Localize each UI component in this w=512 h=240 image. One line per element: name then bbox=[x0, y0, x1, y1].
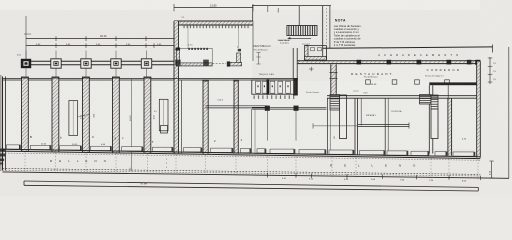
colonnade wall (double line) bbox=[21, 61, 178, 65]
south wall band (footing cells) bbox=[7, 145, 476, 157]
column (restaurant wall) x=388.8 bbox=[387, 60, 392, 65]
wall (hatched vertical) x=21.5 bbox=[21, 77, 29, 152]
right dimension (vertical, lower) bbox=[489, 161, 493, 178]
wall (hatched vertical) x=476.7 bbox=[477, 62, 481, 158]
wall (hatched vertical) x=174.0 bbox=[174, 80, 179, 154]
note text block (NOTA) bbox=[334, 19, 362, 47]
dim ticks on left wall bbox=[330, 73, 338, 79]
column (interior dashed) x=368 bbox=[366, 80, 371, 84]
column (interior dashed) x=417 bbox=[415, 80, 420, 84]
sidewalk edge line (top) bbox=[252, 5, 331, 7]
stair slot room 1 bbox=[69, 101, 90, 136]
column (restaurant wall) x=448.8 bbox=[447, 60, 452, 65]
dimension line (vestibule 12.80) bbox=[174, 4, 253, 12]
wall (hatched vertical) x=234.0 bbox=[234, 80, 239, 154]
wall continuations through strip (dashed) bbox=[25, 152, 478, 179]
interior wall line bbox=[447, 85, 449, 154]
column P5 bbox=[141, 51, 151, 78]
rooms bottom wall (sloped) bbox=[3, 149, 481, 160]
toilet room bbox=[279, 39, 327, 60]
column (interior dashed) x=394.5 bbox=[392, 80, 397, 84]
overall dimension bracket 97.84 bbox=[24, 181, 478, 191]
dimension line (bays 3.00) bbox=[17, 43, 174, 56]
corredor bottom thick wall bbox=[429, 82, 480, 85]
column (restaurant wall) x=418.8 bbox=[417, 60, 422, 65]
basement stair 2 (rungs) bbox=[420, 95, 439, 110]
wall (hatched vertical) x=82.5 bbox=[82, 77, 90, 153]
wall below restaurant bbox=[327, 96, 477, 99]
wall (hatched vertical) x=112.5 bbox=[112, 77, 120, 153]
vestibule interior pier cluster 2 bbox=[227, 46, 242, 66]
column near corner bbox=[467, 60, 472, 65]
dimension line (overall 32.10) bbox=[24, 16, 174, 59]
espera room wall bbox=[306, 91, 409, 129]
column (interior dashed) x=447 bbox=[445, 80, 450, 84]
interior dimension line 16.10 bbox=[130, 79, 132, 172]
label RESTAURANT bbox=[351, 72, 392, 86]
column P2 bbox=[51, 51, 61, 78]
hatch dashes under top wall bbox=[184, 26, 249, 29]
relleno strip bottom (dashed) bbox=[3, 168, 481, 176]
interior light patches bbox=[6, 81, 476, 149]
stair slot room 2 bbox=[154, 99, 168, 133]
wall (hatched vertical) x=447.9 bbox=[448, 98, 452, 155]
wall (hatched vertical) x=330.8 bbox=[331, 64, 336, 98]
wall (hatched vertical) x=203.0 bbox=[203, 80, 209, 154]
vestibule centerlines bbox=[187, 25, 189, 48]
right border line bbox=[508, 47, 510, 178]
taquilla booths bbox=[252, 79, 297, 95]
main front wall (double line) bbox=[3, 78, 299, 80]
taquilla basement wall bbox=[252, 106, 327, 154]
vestibule interior pier cluster 1 bbox=[175, 44, 212, 66]
bottom dimension ticks bbox=[267, 173, 480, 182]
wall (hatched vertical) x=144.0 bbox=[144, 77, 152, 154]
basement stair 2 well bbox=[431, 109, 438, 139]
hatch dashes below booths bbox=[254, 95, 295, 99]
wall left of stair 1 bbox=[328, 98, 331, 154]
restaurant front wall bbox=[297, 61, 480, 64]
label CORREDOR bbox=[425, 68, 460, 77]
basement stair 1 (rungs) bbox=[330, 95, 340, 111]
column (restaurant wall) x=358.8 bbox=[357, 60, 362, 65]
wall mid-left basement bbox=[206, 100, 268, 108]
column P1 bbox=[21, 51, 31, 78]
room labels bbox=[30, 135, 467, 169]
basement stair 1 well bbox=[340, 95, 347, 139]
label VESTIBULO bbox=[253, 44, 271, 51]
entrance stairs bbox=[287, 26, 317, 36]
wall (hatched vertical) x=174 bbox=[174, 21, 179, 80]
wall (vestibule/taquilla divider) bbox=[293, 48, 298, 96]
sidewalk boundary verticals bbox=[253, 6, 330, 62]
wall x=385 bbox=[385, 98, 388, 155]
wall x=355 bbox=[355, 98, 358, 155]
sidewalk edge line (acera) bbox=[323, 45, 493, 53]
corner column bbox=[475, 60, 480, 65]
wall (hatched horizontal) y=21.0 bbox=[174, 21, 253, 25]
column P3 bbox=[81, 51, 91, 78]
corredor left wall below bbox=[429, 85, 433, 153]
door swing dashes bbox=[213, 63, 227, 65]
right dimension (vertical, upper) bbox=[488, 57, 496, 84]
vestibule right edge bbox=[252, 21, 254, 61]
ground line (full width) bbox=[3, 172, 510, 178]
centerline cross bbox=[309, 67, 314, 71]
rotated room dims bbox=[94, 114, 156, 119]
wall (hatched vertical) x=52.0 bbox=[52, 77, 60, 152]
vestibule width dim bbox=[256, 53, 260, 65]
stair direction arrow bbox=[278, 37, 312, 45]
column P4 bbox=[111, 51, 121, 78]
left edge wall bbox=[3, 77, 6, 171]
scan edge artifacts bbox=[0, 75, 6, 171]
